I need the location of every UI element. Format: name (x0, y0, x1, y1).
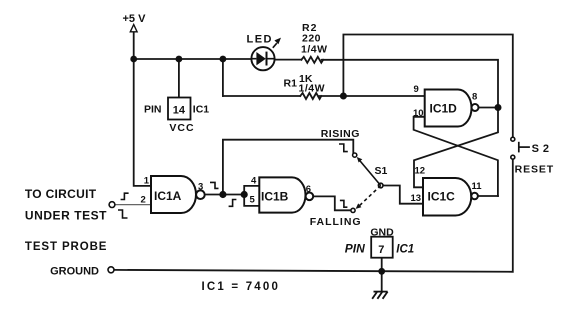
svg-text:7: 7 (378, 244, 384, 256)
svg-text:UNDER TEST: UNDER TEST (25, 208, 107, 222)
svg-text:IC1: IC1 (396, 243, 414, 255)
svg-text:1/4W: 1/4W (299, 82, 326, 94)
svg-text:PIN: PIN (345, 241, 365, 255)
svg-text:10: 10 (413, 108, 424, 119)
svg-text:12: 12 (415, 165, 426, 176)
svg-text:S2: S2 (532, 143, 553, 155)
svg-text:IC1A: IC1A (154, 189, 182, 203)
svg-text:4: 4 (251, 176, 257, 187)
svg-text:2: 2 (141, 195, 146, 206)
svg-text:IC1 = 7400: IC1 = 7400 (202, 281, 281, 293)
svg-text:PIN: PIN (144, 104, 162, 116)
svg-text:GND: GND (370, 226, 394, 238)
svg-text:1: 1 (144, 176, 150, 187)
svg-text:S1: S1 (375, 165, 388, 177)
svg-text:14: 14 (173, 104, 186, 116)
svg-text:IC1C: IC1C (428, 189, 456, 203)
svg-text:LED: LED (247, 34, 274, 46)
svg-text:9: 9 (414, 84, 419, 95)
svg-text:FALLING: FALLING (310, 216, 362, 228)
svg-text:3: 3 (198, 182, 203, 193)
svg-text:RISING: RISING (321, 128, 360, 140)
svg-text:11: 11 (472, 181, 483, 192)
svg-text:VCC: VCC (169, 122, 194, 134)
svg-text:IC1D: IC1D (430, 101, 458, 115)
svg-text:TEST PROBE: TEST PROBE (25, 241, 107, 253)
svg-text:RESET: RESET (515, 163, 555, 175)
svg-text:+5 V: +5 V (123, 13, 147, 25)
svg-text:13: 13 (411, 193, 422, 204)
svg-text:5: 5 (250, 195, 256, 206)
svg-text:IC1: IC1 (193, 104, 210, 116)
svg-text:8: 8 (472, 92, 477, 103)
svg-text:1/4W: 1/4W (301, 43, 328, 55)
svg-text:TO CIRCUIT: TO CIRCUIT (25, 187, 97, 201)
svg-text:R1: R1 (284, 78, 298, 90)
svg-text:6: 6 (306, 184, 311, 195)
svg-text:IC1B: IC1B (261, 189, 289, 203)
svg-text:GROUND: GROUND (50, 265, 99, 277)
